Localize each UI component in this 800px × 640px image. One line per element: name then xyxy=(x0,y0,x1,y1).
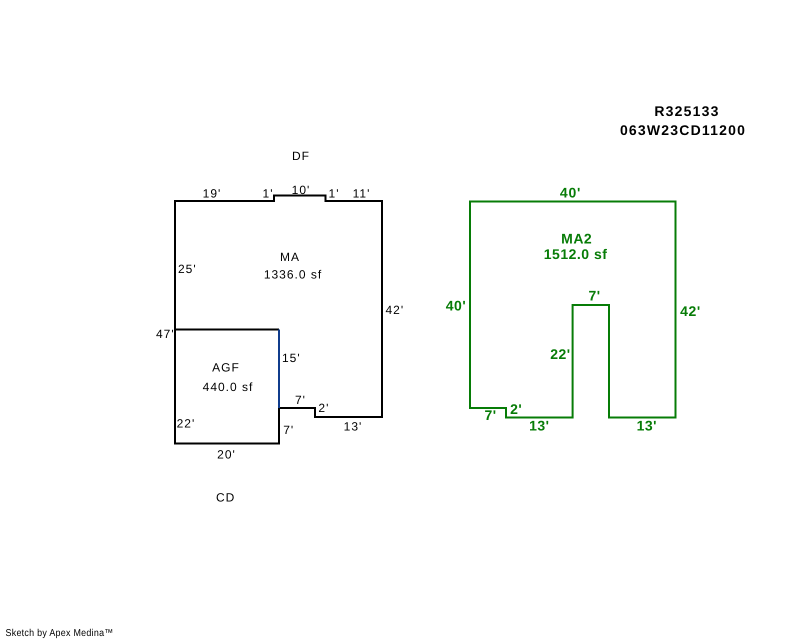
svg-text:1512.0 sf: 1512.0 sf xyxy=(544,246,608,262)
svg-text:47': 47' xyxy=(156,327,175,341)
svg-text:25': 25' xyxy=(178,262,197,276)
svg-text:7': 7' xyxy=(485,407,497,423)
svg-text:063W23CD11200: 063W23CD11200 xyxy=(620,122,746,138)
svg-text:11': 11' xyxy=(353,187,371,201)
MA outline wall path xyxy=(175,196,382,444)
svg-text:AGF: AGF xyxy=(212,361,240,375)
svg-text:22': 22' xyxy=(177,417,196,431)
AGF top divider wall xyxy=(175,329,279,331)
svg-text:2': 2' xyxy=(510,401,522,417)
svg-text:19': 19' xyxy=(203,187,222,201)
svg-text:MA2: MA2 xyxy=(561,231,592,247)
svg-text:1': 1' xyxy=(263,187,274,201)
svg-text:2': 2' xyxy=(318,401,329,415)
svg-text:7': 7' xyxy=(283,423,294,437)
svg-text:MA: MA xyxy=(280,250,300,264)
svg-text:13': 13' xyxy=(637,418,657,434)
svg-text:13': 13' xyxy=(529,418,549,434)
svg-text:42': 42' xyxy=(386,303,405,317)
svg-text:10': 10' xyxy=(292,183,311,197)
svg-text:1': 1' xyxy=(329,187,340,201)
svg-text:42': 42' xyxy=(680,303,701,319)
svg-text:15': 15' xyxy=(282,351,301,365)
svg-text:R325133: R325133 xyxy=(654,103,719,119)
svg-text:CD: CD xyxy=(216,491,235,505)
svg-text:Sketch by Apex Medina™: Sketch by Apex Medina™ xyxy=(6,628,114,639)
svg-text:7': 7' xyxy=(295,393,306,407)
svg-text:DF: DF xyxy=(292,149,310,163)
AGF right upper wall blue 15ft xyxy=(278,330,280,409)
svg-text:440.0 sf: 440.0 sf xyxy=(203,380,254,394)
MA2 outline wall path green xyxy=(470,202,676,418)
svg-text:20': 20' xyxy=(217,448,236,462)
svg-text:7': 7' xyxy=(588,288,600,304)
svg-text:22': 22' xyxy=(550,346,570,362)
svg-text:40': 40' xyxy=(446,298,467,314)
svg-text:40': 40' xyxy=(560,185,581,201)
svg-text:13': 13' xyxy=(344,420,363,434)
svg-text:1336.0 sf: 1336.0 sf xyxy=(264,268,322,282)
